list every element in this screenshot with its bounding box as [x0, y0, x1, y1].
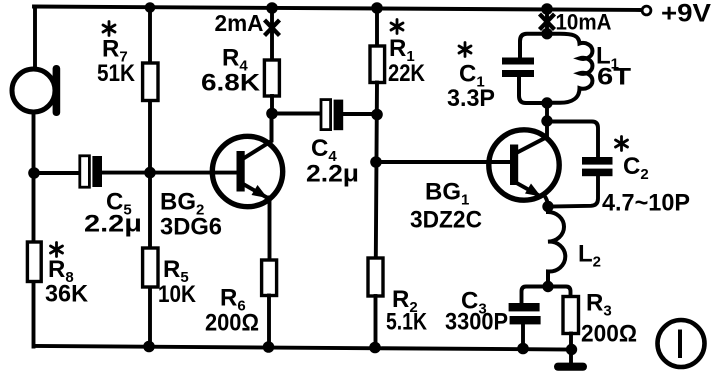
wire BG1 emitter lead: [544, 195, 549, 207]
wire tank left top: [520, 34, 547, 58]
wire BG2 emitter lead: [268, 198, 272, 261]
transistor Q BG2: [212, 136, 282, 206]
svg-text:4.7~10P: 4.7~10P: [602, 190, 690, 217]
wire R1 to R2 vertical bus: [376, 83, 377, 259]
svg-text:3DG6: 3DG6: [160, 214, 222, 241]
wire BG1 base lead: [376, 160, 512, 164]
resistor R1: [370, 46, 385, 83]
capacitor C3: [509, 303, 541, 324]
svg-text:10mA: 10mA: [556, 10, 612, 35]
current break mark (2mA measuring point): [266, 22, 278, 35]
svg-text:200Ω: 200Ω: [205, 310, 259, 337]
node bottom rail / R6: [263, 341, 275, 353]
resistor R5: [143, 248, 158, 287]
wire rail to tank top: [545, 9, 549, 34]
node bottom rail / R3 / ground: [566, 344, 577, 355]
wire R6 to bottom rail: [267, 296, 271, 348]
wire C5 to BG2 base: [102, 171, 237, 175]
svg-text:51K: 51K: [97, 60, 136, 87]
resistor R4: [264, 60, 279, 96]
node BG1 base / bus junction: [370, 156, 382, 168]
svg-text:2mA: 2mA: [215, 10, 264, 36]
svg-text:22K: 22K: [388, 60, 426, 87]
wire BG2 collector lead: [245, 114, 272, 158]
svg-text:+9V: +9V: [661, 0, 711, 28]
resistor R7: [143, 63, 158, 101]
transistor Q BG1: [489, 130, 559, 200]
node top rail / mid bus: [145, 2, 156, 13]
current break mark (10mA measuring point): [541, 16, 553, 29]
node mid bus / base wire: [144, 167, 156, 179]
wire R3 top lead: [548, 287, 571, 297]
node A (left bus / C5 junction): [28, 167, 40, 179]
node top rail / R1 branch: [371, 2, 383, 14]
node bottom rail / C3: [517, 343, 529, 355]
wire L2 node vertical: [546, 280, 550, 287]
svg-text:2.2μ: 2.2μ: [306, 161, 359, 188]
node top rail / tank branch: [541, 3, 553, 15]
wire C5 left lead: [34, 171, 80, 175]
svg-text:36K: 36K: [45, 281, 89, 308]
svg-text:2.2μ: 2.2μ: [84, 211, 142, 238]
wire left vertical upper (rail to microphone): [33, 7, 37, 69]
svg-text:10K: 10K: [158, 281, 197, 308]
star mark for C1: [459, 43, 471, 57]
wire C4 right lead: [343, 112, 377, 116]
svg-text:3.3P: 3.3P: [447, 85, 495, 112]
wire R4 branch upper: [270, 8, 274, 60]
node tank top: [541, 28, 552, 39]
wire R1 branch upper: [375, 8, 379, 46]
resistor R6: [262, 260, 277, 296]
wire top supply rail: [34, 7, 640, 11]
inductor L1: [547, 34, 592, 103]
ground: [554, 363, 587, 371]
wire C3 top lead: [522, 287, 549, 304]
wire ground stub: [569, 350, 573, 364]
resistor R2: [368, 258, 383, 296]
svg-text:6T: 6T: [597, 64, 631, 91]
resistor R8: [27, 242, 41, 282]
wire C4 left lead: [272, 112, 321, 116]
capacitor C5: [80, 156, 102, 187]
svg-text:200Ω: 200Ω: [581, 321, 637, 348]
node L2 bottom: [542, 281, 553, 292]
wire C2 bottom lead: [550, 176, 598, 207]
wire left vertical lower (microphone to bottom rail): [32, 113, 36, 347]
star mark for C2: [616, 137, 628, 151]
wire C2 top lead: [547, 122, 598, 158]
svg-text:3DZ2C: 3DZ2C: [410, 207, 482, 234]
node bottom rail / R2: [369, 342, 381, 354]
power terminal +9V: [642, 6, 651, 15]
wire R4 to collector node: [270, 96, 274, 114]
node C4 / bus junction: [371, 109, 383, 121]
capacitor C4: [321, 100, 343, 131]
capacitor C2: [582, 157, 613, 176]
svg-text:6.8K: 6.8K: [201, 70, 261, 97]
wire tank left bottom: [519, 77, 547, 103]
node bottom rail / mid bus: [143, 341, 155, 353]
svg-text:3300P: 3300P: [445, 309, 508, 336]
wire mid vertical bus x=150: [148, 8, 152, 347]
wire R3 to bottom rail: [569, 334, 573, 350]
resistor R3: [563, 297, 579, 334]
inductor L2: [548, 207, 565, 281]
wire C3 to bottom rail: [521, 325, 525, 349]
node tank bottom: [541, 97, 552, 108]
node top rail / R4 branch: [266, 2, 278, 14]
svg-text:5.1K: 5.1K: [386, 309, 428, 336]
microphone B: [12, 65, 60, 116]
wire BG1 collector lead: [545, 103, 549, 137]
node BG2 collector / C4 junction: [266, 108, 278, 120]
node BG1 emitter / L2 top: [542, 201, 553, 212]
wire bottom ground rail: [34, 346, 572, 350]
star mark for R8: [51, 243, 63, 257]
star mark for R1: [391, 20, 403, 34]
node collector / C2 branch: [541, 115, 552, 126]
figure number circle 1: [658, 320, 705, 367]
wire R2 to bottom rail: [374, 296, 378, 348]
capacitor C1: [502, 58, 534, 78]
star mark for R7: [103, 22, 115, 36]
